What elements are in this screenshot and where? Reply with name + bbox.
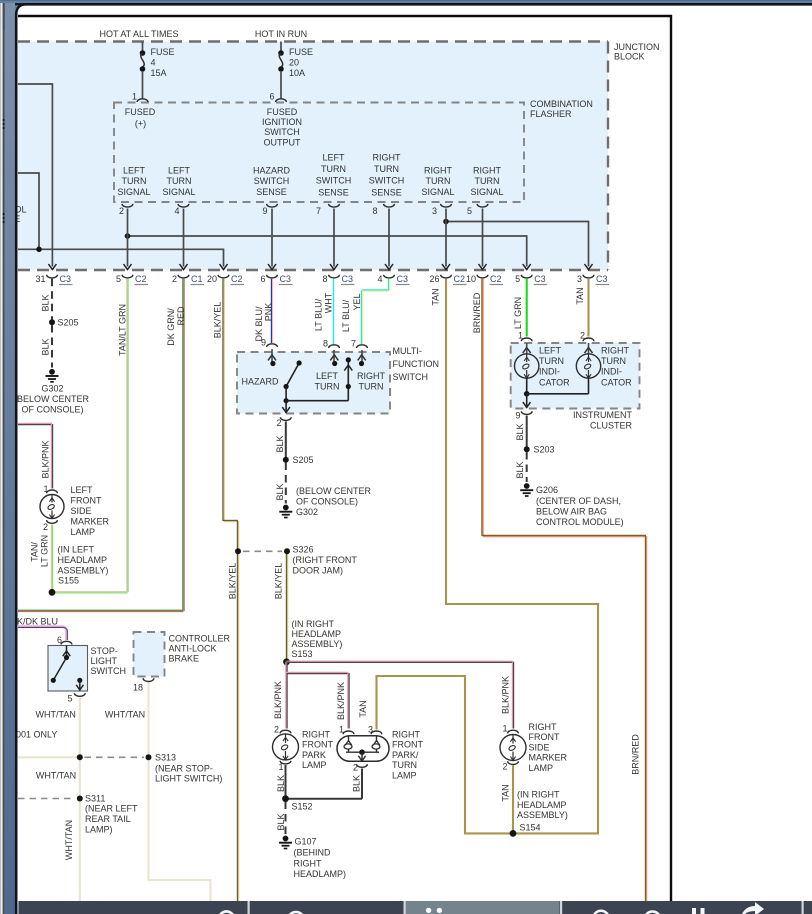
svg-text:TAN: TAN: [501, 784, 511, 801]
svg-text:S203: S203: [534, 444, 555, 454]
svg-text:S313: S313: [155, 753, 176, 763]
svg-text:RIGHT: RIGHT: [601, 346, 630, 356]
svg-text:RIGHT: RIGHT: [529, 722, 558, 732]
svg-text:S153: S153: [292, 649, 313, 659]
svg-text:LAMP: LAMP: [71, 527, 96, 537]
svg-text:1: 1: [339, 725, 344, 735]
svg-text:1: 1: [43, 484, 48, 494]
svg-text:INSTRUMENT: INSTRUMENT: [573, 410, 632, 420]
svg-text:DK BLU/: DK BLU/: [254, 306, 264, 342]
svg-text:2: 2: [119, 206, 124, 216]
svg-text:4: 4: [151, 58, 156, 68]
svg-text:20: 20: [289, 58, 299, 68]
svg-text:8: 8: [372, 206, 377, 216]
svg-text:LT GRN: LT GRN: [513, 297, 523, 329]
svg-text:S326: S326: [293, 544, 314, 554]
svg-text:ASSEMBLY): ASSEMBLY): [517, 810, 568, 820]
svg-text:(CENTER OF DASH,: (CENTER OF DASH,: [536, 496, 621, 506]
svg-text:SENSE: SENSE: [256, 187, 287, 197]
svg-text:HEADLAMP: HEADLAMP: [58, 555, 108, 565]
svg-text:DOOR JAM): DOOR JAM): [293, 565, 344, 575]
svg-text:BLK/PNK: BLK/PNK: [41, 440, 51, 478]
svg-text:LEFT: LEFT: [123, 166, 146, 176]
svg-text:CONTROL MODULE): CONTROL MODULE): [536, 517, 624, 527]
svg-text:WHT: WHT: [323, 292, 333, 313]
svg-text:ASSEMBLY): ASSEMBLY): [292, 639, 343, 649]
svg-text:5: 5: [67, 694, 72, 704]
svg-text:LT BLU/: LT BLU/: [314, 298, 324, 331]
svg-text:PNK: PNK: [264, 303, 274, 322]
svg-text:SWITCH: SWITCH: [91, 666, 127, 676]
svg-text:WHT/TAN: WHT/TAN: [36, 771, 76, 781]
svg-text:LT BLU/: LT BLU/: [341, 299, 351, 332]
svg-text:5: 5: [467, 206, 472, 216]
svg-text:TURN: TURN: [374, 164, 399, 174]
svg-text:SIGNAL: SIGNAL: [470, 187, 503, 197]
svg-text:2: 2: [276, 418, 281, 428]
svg-text:WHT/TAN: WHT/TAN: [64, 820, 74, 860]
svg-text:TURN: TURN: [601, 356, 626, 366]
svg-text:SENSE: SENSE: [371, 187, 402, 197]
svg-text:BELOW AIR BAG: BELOW AIR BAG: [536, 507, 607, 517]
svg-text:20: 20: [207, 274, 217, 284]
svg-text:INDI-: INDI-: [601, 367, 622, 377]
svg-text:LIGHT SWITCH): LIGHT SWITCH): [155, 774, 222, 784]
svg-text:TAN/: TAN/: [30, 542, 40, 562]
svg-text:C1: C1: [191, 274, 203, 284]
svg-text:9: 9: [262, 206, 267, 216]
svg-text:10A: 10A: [289, 68, 305, 78]
svg-text:1: 1: [278, 762, 283, 772]
svg-text:9: 9: [261, 338, 266, 348]
svg-text:G302: G302: [296, 507, 318, 517]
svg-text:RIGHT: RIGHT: [473, 166, 502, 176]
svg-text:CLUSTER: CLUSTER: [590, 421, 633, 431]
svg-text:G302: G302: [41, 384, 63, 394]
svg-text:S154: S154: [520, 822, 541, 832]
svg-text:LIGHT: LIGHT: [91, 656, 118, 666]
svg-text:BLK: BLK: [515, 423, 525, 440]
svg-text:OUTPUT: OUTPUT: [264, 137, 302, 147]
svg-text:(IN RIGHT: (IN RIGHT: [292, 619, 335, 629]
svg-text:(+): (+): [135, 119, 146, 129]
svg-text:RIGHT: RIGHT: [294, 858, 323, 868]
svg-text:TAN/LT GRN: TAN/LT GRN: [118, 304, 128, 356]
svg-text:BRN/RED: BRN/RED: [472, 292, 482, 333]
svg-text:LAMP: LAMP: [392, 770, 417, 780]
svg-text:4: 4: [174, 206, 179, 216]
svg-text:FUSED: FUSED: [125, 107, 156, 117]
svg-text:BRN/RED: BRN/RED: [631, 734, 641, 775]
svg-text:SIGNAL: SIGNAL: [162, 187, 195, 197]
svg-text:3: 3: [368, 725, 373, 735]
svg-text:BLK/YEL: BLK/YEL: [228, 563, 238, 600]
svg-text:SIDE: SIDE: [71, 506, 92, 516]
svg-text:6: 6: [269, 92, 274, 102]
svg-text:FUNCTION: FUNCTION: [393, 359, 440, 369]
svg-text:C2: C2: [135, 274, 147, 284]
svg-text:FUSE: FUSE: [151, 47, 175, 57]
svg-text:JUNCTION: JUNCTION: [614, 42, 660, 52]
svg-text:MARKER: MARKER: [529, 753, 568, 763]
svg-text:5: 5: [515, 274, 520, 284]
svg-text:RED: RED: [176, 306, 186, 326]
svg-text:2: 2: [43, 522, 48, 532]
svg-text:OF CONSOLE): OF CONSOLE): [296, 496, 358, 506]
svg-text:TURN: TURN: [321, 164, 346, 174]
svg-text:C3: C3: [534, 274, 546, 284]
svg-text:BLK: BLK: [515, 461, 525, 478]
svg-text:HEADLAMP): HEADLAMP): [294, 869, 347, 879]
svg-text:STOP-: STOP-: [91, 646, 118, 656]
svg-text:G206: G206: [536, 485, 558, 495]
svg-text:SIDE: SIDE: [529, 742, 550, 752]
svg-text:SWITCH: SWITCH: [264, 127, 300, 137]
svg-text:(IN LEFT: (IN LEFT: [58, 545, 95, 555]
svg-text:2001 ONLY: 2001 ONLY: [11, 730, 57, 740]
svg-text:C3: C3: [60, 274, 72, 284]
svg-text:S311: S311: [85, 794, 105, 804]
svg-text:MULTI-: MULTI-: [393, 346, 422, 356]
svg-text:15A: 15A: [151, 68, 167, 78]
svg-text:2: 2: [353, 763, 358, 773]
svg-text:S205: S205: [293, 455, 314, 465]
svg-text:FUSE: FUSE: [289, 47, 313, 57]
svg-text:6: 6: [260, 274, 265, 284]
svg-text:S155: S155: [58, 576, 79, 586]
svg-text:CATOR: CATOR: [539, 377, 570, 387]
svg-text:HAZARD: HAZARD: [253, 166, 291, 176]
svg-text:2: 2: [172, 274, 177, 284]
svg-text:SIGNAL: SIGNAL: [421, 187, 454, 197]
svg-text:FRONT: FRONT: [392, 740, 423, 750]
svg-text:SWITCH: SWITCH: [316, 176, 352, 186]
svg-text:C3: C3: [342, 274, 354, 284]
svg-text:LEFT: LEFT: [539, 346, 562, 356]
svg-text:FUSED: FUSED: [267, 107, 298, 117]
svg-text:8: 8: [322, 274, 327, 284]
svg-text:BLK/PNK: BLK/PNK: [336, 682, 346, 720]
svg-text:1: 1: [502, 724, 507, 734]
svg-text:C3: C3: [397, 274, 409, 284]
svg-text:C2: C2: [231, 274, 243, 284]
svg-text:PARK: PARK: [302, 750, 326, 760]
svg-text:RIGHT: RIGHT: [392, 730, 421, 740]
svg-text:IGNITION: IGNITION: [262, 117, 302, 127]
svg-text:HOT AT ALL TIMES: HOT AT ALL TIMES: [99, 29, 178, 39]
svg-text:(BELOW CENTER: (BELOW CENTER: [14, 394, 90, 404]
svg-text:COMBINATION: COMBINATION: [530, 99, 593, 109]
svg-text:4: 4: [377, 274, 382, 284]
svg-text:1: 1: [132, 92, 137, 102]
svg-text:1: 1: [518, 331, 523, 341]
svg-text:SWITCH: SWITCH: [369, 176, 405, 186]
svg-text:RIGHT: RIGHT: [424, 166, 453, 176]
svg-text:LEFT: LEFT: [322, 153, 345, 163]
svg-text:TAN: TAN: [431, 288, 441, 305]
svg-text:LEFT: LEFT: [168, 166, 191, 176]
svg-text:FRONT: FRONT: [529, 732, 560, 742]
svg-text:RIGHT: RIGHT: [357, 371, 386, 381]
svg-text:10: 10: [466, 274, 476, 284]
svg-text:RIGHT: RIGHT: [373, 153, 402, 163]
svg-text:S152: S152: [292, 802, 313, 812]
svg-text:2: 2: [274, 725, 279, 735]
svg-text:TURN: TURN: [122, 176, 147, 186]
svg-text:C3: C3: [280, 274, 292, 284]
svg-text:ASSEMBLY): ASSEMBLY): [58, 566, 109, 576]
svg-text:C3: C3: [596, 274, 608, 284]
svg-text:BLK: BLK: [276, 775, 286, 792]
svg-text:FRONT: FRONT: [71, 496, 102, 506]
svg-text:C2: C2: [454, 274, 466, 284]
svg-text:BLOCK: BLOCK: [614, 52, 645, 62]
svg-text:TAN: TAN: [575, 287, 585, 304]
svg-text:TURN: TURN: [539, 356, 564, 366]
svg-text:18: 18: [133, 683, 143, 693]
svg-text:BLK: BLK: [276, 813, 286, 830]
svg-text:BLK: BLK: [275, 483, 285, 500]
svg-text:TURN: TURN: [426, 176, 451, 186]
svg-text:DK GRN/: DK GRN/: [166, 308, 176, 346]
svg-text:HAZARD: HAZARD: [242, 377, 280, 387]
svg-text:HEADLAMP: HEADLAMP: [517, 800, 567, 810]
svg-text:OF CONSOLE): OF CONSOLE): [21, 405, 83, 415]
svg-text:SWITCH: SWITCH: [254, 176, 290, 186]
svg-text:BLK: BLK: [275, 435, 285, 452]
svg-text:7: 7: [351, 339, 356, 349]
svg-text:FRONT: FRONT: [302, 740, 333, 750]
svg-text:(BELOW CENTER: (BELOW CENTER: [296, 486, 372, 496]
svg-text:TURN: TURN: [392, 760, 417, 770]
svg-text:SENSE: SENSE: [318, 187, 349, 197]
svg-text:YEL: YEL: [352, 293, 362, 310]
svg-text:RIGHT: RIGHT: [302, 730, 331, 740]
svg-text:BLK/PNK: BLK/PNK: [273, 681, 283, 719]
svg-text:TURN: TURN: [475, 176, 500, 186]
svg-text:TURN: TURN: [167, 176, 192, 186]
svg-text:6: 6: [57, 635, 62, 645]
svg-text:(NEAR STOP-: (NEAR STOP-: [155, 763, 213, 773]
svg-text:LAMP: LAMP: [302, 760, 327, 770]
svg-text:31: 31: [35, 274, 45, 284]
svg-text:MARKER: MARKER: [71, 517, 110, 527]
svg-text:BLK: BLK: [352, 775, 362, 792]
svg-text:ANTI-LOCK: ANTI-LOCK: [169, 644, 217, 654]
svg-text:2: 2: [502, 762, 507, 772]
svg-text:WHT/TAN: WHT/TAN: [36, 710, 76, 720]
svg-text:2: 2: [580, 331, 585, 341]
svg-text:PARK/: PARK/: [392, 750, 419, 760]
svg-text:FLASHER: FLASHER: [530, 109, 572, 119]
svg-text:LEFT: LEFT: [71, 485, 94, 495]
svg-text:HEADLAMP: HEADLAMP: [292, 629, 342, 639]
svg-text:7: 7: [316, 206, 321, 216]
svg-text:HOT IN RUN: HOT IN RUN: [255, 29, 307, 39]
svg-text:5: 5: [116, 274, 121, 284]
svg-text:(RIGHT FRONT: (RIGHT FRONT: [293, 555, 358, 565]
svg-text:(IN RIGHT: (IN RIGHT: [517, 790, 560, 800]
svg-text:(BEHIND: (BEHIND: [294, 848, 332, 858]
svg-text:TURN: TURN: [359, 381, 384, 391]
svg-text:SWITCH: SWITCH: [393, 372, 429, 382]
svg-text:INDI-: INDI-: [539, 367, 560, 377]
svg-text:S205: S205: [58, 317, 79, 327]
svg-text:3: 3: [577, 274, 582, 284]
svg-text:BLK/YEL: BLK/YEL: [213, 302, 223, 339]
svg-text:BLK/PNK: BLK/PNK: [501, 676, 511, 714]
svg-text:LT GRN: LT GRN: [40, 535, 50, 567]
svg-text:LAMP): LAMP): [85, 824, 113, 834]
svg-text:BLK: BLK: [41, 294, 51, 311]
svg-text:3: 3: [432, 206, 437, 216]
svg-text:8: 8: [323, 339, 328, 349]
svg-text:TURN: TURN: [315, 381, 340, 391]
svg-text:SIGNAL: SIGNAL: [117, 187, 150, 197]
svg-text:(NEAR LEFT: (NEAR LEFT: [85, 804, 138, 814]
svg-text:LEFT: LEFT: [316, 371, 339, 381]
svg-text:CATOR: CATOR: [601, 377, 632, 387]
svg-text:BLK: BLK: [41, 338, 51, 355]
svg-text:26: 26: [429, 274, 439, 284]
svg-text:CONTROLLER: CONTROLLER: [169, 634, 231, 644]
svg-text:G107: G107: [295, 836, 317, 846]
svg-text:REAR TAIL: REAR TAIL: [85, 814, 131, 824]
svg-text:TAN: TAN: [358, 700, 368, 717]
svg-text:9: 9: [515, 411, 520, 421]
svg-text:C2: C2: [490, 274, 502, 284]
svg-text:LAMP: LAMP: [529, 763, 554, 773]
svg-text:BLK/YEL: BLK/YEL: [274, 563, 284, 600]
svg-text:BRAKE: BRAKE: [169, 654, 200, 664]
svg-text:WHT/TAN: WHT/TAN: [105, 710, 145, 720]
